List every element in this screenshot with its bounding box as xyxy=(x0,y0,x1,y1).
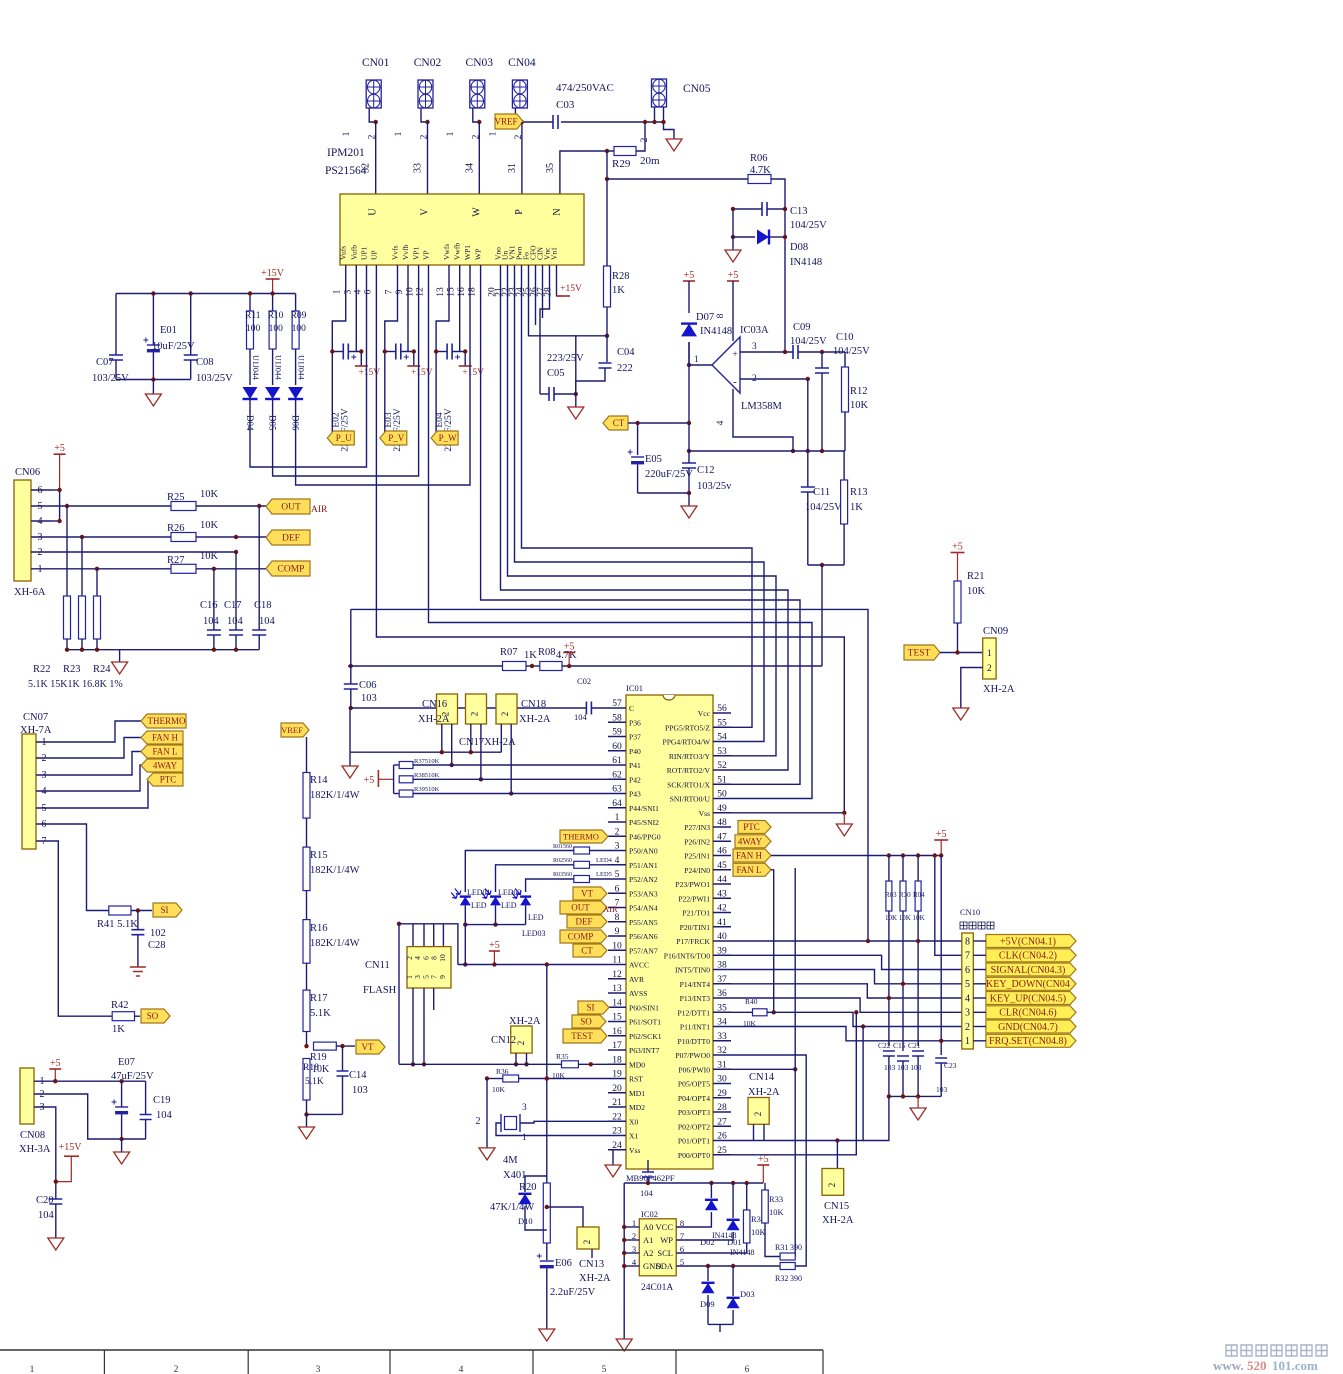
capacitor C13 104/25V xyxy=(733,202,827,231)
wire CN18 pin2 to R39 line xyxy=(509,724,513,796)
capacitor C22 103 xyxy=(878,1041,895,1096)
wire CN11 feed verticals xyxy=(397,922,444,1065)
svg-text:R19: R19 xyxy=(310,1052,327,1063)
wire C11 R13 bottom rail xyxy=(808,563,844,666)
svg-text:10uF/25V: 10uF/25V xyxy=(152,341,195,352)
svg-text:5: 5 xyxy=(602,1365,607,1374)
svg-text:P04/OPT4: P04/OPT4 xyxy=(678,1094,710,1103)
svg-text:48: 48 xyxy=(717,818,727,828)
svg-text:C11: C11 xyxy=(813,487,830,498)
svg-text:R33: R33 xyxy=(769,1194,783,1204)
wire right cap ground rail xyxy=(887,1094,942,1108)
svg-text:WP: WP xyxy=(660,1235,673,1245)
svg-text:TEST: TEST xyxy=(571,1031,593,1041)
diode D06 xyxy=(288,349,303,431)
svg-text:COMP: COMP xyxy=(568,932,594,942)
svg-text:3: 3 xyxy=(343,289,353,294)
wire CN07 pin5 to PTC xyxy=(36,780,152,808)
svg-text:9: 9 xyxy=(615,927,620,937)
svg-text:27: 27 xyxy=(717,1117,727,1127)
svg-text:103: 103 xyxy=(361,693,377,704)
resistor R07 1K xyxy=(500,647,540,671)
wire bus IPM pin12 to MCU pin50 xyxy=(429,265,813,799)
svg-text:R39510K: R39510K xyxy=(414,786,440,793)
capacitor C11 104/25V xyxy=(801,379,842,565)
net flag COMP at IC01 pin9 xyxy=(560,930,607,943)
svg-text:P22/PWI1: P22/PWI1 xyxy=(678,894,710,903)
svg-text:32: 32 xyxy=(717,1046,727,1056)
svg-text:P00/OPT0: P00/OPT0 xyxy=(678,1151,710,1160)
svg-text:R40: R40 xyxy=(745,997,758,1006)
svg-text:C23: C23 xyxy=(944,1061,957,1070)
svg-text:IN4148: IN4148 xyxy=(790,257,822,268)
resistor R35 10K xyxy=(399,1052,608,1080)
svg-text:30: 30 xyxy=(717,1075,727,1085)
svg-text:37: 37 xyxy=(717,975,727,985)
svg-text:C: C xyxy=(629,704,634,713)
svg-text:CN06: CN06 xyxy=(15,467,40,478)
connector CN10 display header xyxy=(960,907,994,1049)
svg-text:R24: R24 xyxy=(93,664,111,675)
svg-text:20: 20 xyxy=(612,1084,622,1094)
wire CN04 to IPM pin 31 xyxy=(521,122,523,194)
svg-text:R15: R15 xyxy=(310,850,328,861)
svg-text:CN10: CN10 xyxy=(960,907,980,917)
svg-text:MB90F462PF: MB90F462PF xyxy=(626,1173,675,1183)
svg-text:38: 38 xyxy=(717,961,727,971)
ground below C12 xyxy=(681,506,697,518)
svg-text:+5: +5 xyxy=(936,829,947,840)
svg-text:Vcc: Vcc xyxy=(698,709,711,718)
wire CN11 lower stubs xyxy=(411,988,434,1067)
wire IPM phase U pins xyxy=(330,265,363,432)
connector CN14 XH-2A xyxy=(748,1072,780,1141)
net flag VREF divider xyxy=(281,723,309,737)
svg-text:FRQ.SET(CN04.8): FRQ.SET(CN04.8) xyxy=(989,1036,1067,1047)
wire bus IPM pin21 to MCU pin53 xyxy=(508,265,777,756)
capacitor E03 220uF/25V xyxy=(384,344,409,452)
svg-text:2: 2 xyxy=(827,1183,837,1188)
wire IC01 pin26 to CN14 and CN15 xyxy=(731,1027,863,1143)
wire IC01 pin32 to R32 column xyxy=(731,1055,806,1266)
svg-text:103: 103 xyxy=(352,1085,368,1096)
capacitor C23 103 xyxy=(935,1058,957,1096)
svg-text:P11/INT1: P11/INT1 xyxy=(680,1023,710,1032)
svg-text:SDA: SDA xyxy=(656,1261,674,1271)
connector CN13 XH-2A xyxy=(545,1205,611,1284)
capacitor C15 103 xyxy=(893,1041,909,1096)
svg-text:10K: 10K xyxy=(850,400,869,411)
svg-text:UP1: UP1 xyxy=(360,246,369,260)
svg-text:222: 222 xyxy=(617,363,633,374)
svg-text:R32: R32 xyxy=(775,1274,788,1283)
svg-text:Vss: Vss xyxy=(629,1146,640,1155)
svg-text:Vvfb: Vvfb xyxy=(401,244,410,260)
svg-text:CN03: CN03 xyxy=(466,57,494,69)
svg-text:3: 3 xyxy=(316,1365,321,1374)
wire LED anode rail xyxy=(463,925,526,967)
svg-text:2: 2 xyxy=(753,1112,763,1117)
resistor R15 182K/1/4W xyxy=(303,818,360,891)
svg-text:VREF: VREF xyxy=(494,117,517,127)
svg-text:VREF: VREF xyxy=(281,725,303,735)
svg-text:35: 35 xyxy=(717,1003,727,1013)
power +5 at R21 xyxy=(951,542,965,582)
resistor R32 390 xyxy=(775,1263,802,1284)
svg-text:R03: R03 xyxy=(885,891,897,899)
svg-text:E01: E01 xyxy=(160,325,177,336)
svg-text:P13/INT3: P13/INT3 xyxy=(680,994,711,1003)
svg-text:XH-7A: XH-7A xyxy=(20,725,52,736)
svg-text:1: 1 xyxy=(446,131,456,136)
wire op-amp pin 2 xyxy=(740,377,810,381)
svg-text:FAN H: FAN H xyxy=(152,733,179,743)
wire D04 to IPM pin 4 xyxy=(250,265,367,467)
svg-text:R35: R35 xyxy=(556,1052,569,1061)
svg-text:34: 34 xyxy=(464,163,475,173)
wire R18 C14 ground rail xyxy=(304,1112,342,1127)
svg-text:19: 19 xyxy=(612,1070,622,1080)
wire crystal ground branch xyxy=(476,1079,488,1148)
net flag 4WAY at CN07 xyxy=(141,759,183,772)
svg-text:1: 1 xyxy=(965,1036,970,1047)
resistor R22 5.1K xyxy=(64,506,71,650)
svg-text:LM358M: LM358M xyxy=(741,401,783,412)
diode D05 xyxy=(265,349,280,431)
net flag P_V xyxy=(380,431,407,445)
svg-text:CLK(CN04.2): CLK(CN04.2) xyxy=(999,951,1057,962)
net flag VT at IC01 pin6 xyxy=(573,887,607,900)
wire Vss pin24 to ground xyxy=(608,1150,613,1165)
svg-text:13: 13 xyxy=(612,984,622,994)
svg-text:X1: X1 xyxy=(629,1132,638,1141)
LED LED02 xyxy=(481,888,521,927)
svg-text:3: 3 xyxy=(615,842,620,852)
svg-text:104/25V: 104/25V xyxy=(833,346,870,357)
capacitor C08 103/25V xyxy=(184,294,233,385)
svg-text:P42: P42 xyxy=(629,775,641,784)
net flag SIGNAL(CN04.3) xyxy=(973,963,1076,976)
wire E05 ground rail xyxy=(638,491,692,506)
svg-text:6: 6 xyxy=(363,289,373,294)
svg-text:VP: VP xyxy=(422,250,431,260)
power +5 at R08 xyxy=(563,642,575,667)
svg-text:56: 56 xyxy=(717,704,727,714)
svg-text:LED5: LED5 xyxy=(596,871,612,878)
svg-text:182K/1/4W: 182K/1/4W xyxy=(310,938,360,949)
capacitor C21 103 xyxy=(884,1041,924,1096)
svg-text:P55/AN5: P55/AN5 xyxy=(629,918,658,927)
svg-text:C10: C10 xyxy=(836,332,854,343)
wire CN06 pin2 to C17 xyxy=(60,550,238,554)
svg-text:XH-2A: XH-2A xyxy=(418,714,450,725)
svg-text:R03560: R03560 xyxy=(553,872,572,878)
svg-text:P01/OPT1: P01/OPT1 xyxy=(678,1137,710,1146)
svg-text:D09: D09 xyxy=(700,1299,715,1309)
svg-text:10K 10K 10K: 10K 10K 10K xyxy=(885,914,925,922)
svg-text:IC02: IC02 xyxy=(641,1209,658,1219)
svg-text:104: 104 xyxy=(259,616,276,627)
svg-text:46: 46 xyxy=(717,847,727,857)
svg-text:E07: E07 xyxy=(118,1057,135,1068)
svg-text:UP: UP xyxy=(369,250,378,260)
svg-text:XH-2A: XH-2A xyxy=(983,684,1015,695)
wire IC01 pin31 to R31 column xyxy=(731,868,797,1257)
svg-text:6: 6 xyxy=(745,1365,750,1374)
net flag SI at IC01 pin14 xyxy=(578,1001,609,1014)
ground below right caps xyxy=(910,1108,926,1120)
capacitor C20 104 xyxy=(36,1195,62,1238)
svg-text:1: 1 xyxy=(30,1365,35,1374)
svg-text:WP: WP xyxy=(474,249,483,260)
svg-text:3: 3 xyxy=(522,1103,527,1113)
wire op-amp pin 3 xyxy=(740,350,793,354)
svg-text:104: 104 xyxy=(156,1110,173,1121)
svg-text:P57/AN7: P57/AN7 xyxy=(629,946,658,955)
svg-text:LED: LED xyxy=(471,901,487,910)
wire VREF-C03-CN05 net xyxy=(374,120,666,124)
svg-text:P_U: P_U xyxy=(336,433,353,443)
svg-text:IN4148: IN4148 xyxy=(700,326,732,337)
svg-text:XH-3A: XH-3A xyxy=(19,1144,51,1155)
svg-text:5: 5 xyxy=(615,870,620,880)
svg-text:58: 58 xyxy=(612,713,622,723)
svg-text:101.com: 101.com xyxy=(1272,1358,1318,1373)
svg-text:C08: C08 xyxy=(196,357,214,368)
svg-text:SO: SO xyxy=(580,1017,592,1027)
connector CN17 XH-2A xyxy=(466,694,487,752)
svg-text:C09: C09 xyxy=(793,322,811,333)
svg-text:8: 8 xyxy=(615,913,620,923)
svg-text:R10: R10 xyxy=(268,311,284,321)
svg-text:29: 29 xyxy=(717,1089,727,1099)
svg-text:CN14: CN14 xyxy=(749,1072,775,1083)
svg-text:18: 18 xyxy=(468,287,478,297)
svg-text:R18: R18 xyxy=(303,1063,319,1073)
ground below C20 xyxy=(48,1238,64,1250)
svg-text:25: 25 xyxy=(717,1146,727,1156)
svg-text:31: 31 xyxy=(507,163,518,173)
svg-text:CN02: CN02 xyxy=(414,57,442,69)
svg-text:CN13: CN13 xyxy=(579,1259,604,1270)
svg-text:Vss: Vss xyxy=(699,809,710,818)
svg-text:C03: C03 xyxy=(556,99,575,111)
resistor R02 560 at pin4 xyxy=(496,857,613,892)
svg-text:P40: P40 xyxy=(629,747,641,756)
svg-text:C16: C16 xyxy=(200,600,218,611)
IPM bottom pin numbers xyxy=(333,287,554,297)
svg-text:U1J044: U1J044 xyxy=(274,355,283,380)
svg-text:10K: 10K xyxy=(492,1085,506,1094)
wire IC01 pin39 to CN10 pin6 xyxy=(731,955,962,969)
svg-text:E06: E06 xyxy=(555,1258,572,1269)
net flag SO at CN07 xyxy=(141,1009,170,1023)
svg-text:28: 28 xyxy=(717,1103,727,1113)
svg-text:DEF: DEF xyxy=(575,917,592,927)
capacitor C18 104 xyxy=(252,506,275,650)
capacitor E06 2.2uF/25V xyxy=(537,1254,596,1330)
capacitor C24 104 at IC02 xyxy=(640,1160,654,1198)
svg-text:10K: 10K xyxy=(200,489,219,500)
svg-text:P61/SOT1: P61/SOT1 xyxy=(629,1018,661,1027)
capacitor E05 220uF/25V xyxy=(628,423,694,493)
capacitor C07 103/25V xyxy=(92,294,129,385)
svg-text:44: 44 xyxy=(717,875,727,885)
net flag VT divider xyxy=(356,1040,385,1054)
svg-text:THERMO: THERMO xyxy=(563,831,599,841)
svg-text:P24/IN0: P24/IN0 xyxy=(684,866,710,875)
connector CN07 XH-7A xyxy=(20,712,52,849)
svg-text:R06: R06 xyxy=(750,153,768,164)
svg-text:+5: +5 xyxy=(489,940,500,951)
net flag SO at IC01 pin15 xyxy=(572,1015,606,1028)
svg-text:+5: +5 xyxy=(564,642,575,653)
svg-text:39: 39 xyxy=(717,946,727,956)
svg-text:R41 5.1K: R41 5.1K xyxy=(97,919,138,930)
svg-text:390: 390 xyxy=(790,1243,802,1252)
connector CN16 XH-2A xyxy=(437,694,458,752)
connector CN02 xyxy=(394,57,441,139)
net flag GND(CN04.7) xyxy=(973,1020,1076,1033)
svg-text:+5V(CN04.1): +5V(CN04.1) xyxy=(1000,936,1056,947)
ground below crystal branch xyxy=(479,1148,495,1160)
microcontroller IC01 MB90F462 xyxy=(626,683,713,1183)
svg-text:10: 10 xyxy=(438,954,447,962)
svg-text:C12: C12 xyxy=(697,465,715,476)
svg-text:VT: VT xyxy=(362,1042,374,1052)
capacitor C06 103 xyxy=(344,666,377,710)
svg-text:U1J044: U1J044 xyxy=(297,355,306,380)
wire R37-39 left rail xyxy=(394,765,400,794)
resistor R11 100 xyxy=(245,294,261,380)
earth ground below C28 xyxy=(130,967,146,976)
net flag +5V(CN04.1) xyxy=(973,935,1076,948)
wire CN08 pin2 ground rail xyxy=(34,1094,146,1152)
svg-text:62: 62 xyxy=(612,770,622,780)
svg-text:32: 32 xyxy=(361,163,372,173)
capacitor C10 104/25V xyxy=(815,332,870,451)
wire IC01 pin40 to CN10 pin8 xyxy=(731,939,962,943)
svg-text:Vvfs: Vvfs xyxy=(391,245,400,260)
svg-text:FAN H: FAN H xyxy=(736,851,763,861)
svg-text:100: 100 xyxy=(292,324,307,334)
svg-text:VP1: VP1 xyxy=(412,246,421,260)
svg-text:4WAY: 4WAY xyxy=(738,836,763,846)
svg-text:AVCC: AVCC xyxy=(629,961,649,970)
svg-text:P54/AN4: P54/AN4 xyxy=(629,904,658,913)
ground below E07 xyxy=(114,1152,130,1164)
svg-text:47: 47 xyxy=(717,832,727,842)
svg-text:R23: R23 xyxy=(63,664,81,675)
power +15V V phase xyxy=(407,366,432,378)
svg-text:P03/OPT3: P03/OPT3 xyxy=(678,1108,710,1117)
svg-text:THERMO: THERMO xyxy=(148,716,187,726)
wire +15V rail xyxy=(116,291,296,295)
svg-text:R20: R20 xyxy=(519,1182,537,1193)
svg-text:12: 12 xyxy=(416,287,426,297)
svg-text:CN04: CN04 xyxy=(508,57,536,69)
resistor R18 5.1K xyxy=(303,1059,324,1115)
svg-text:7: 7 xyxy=(965,951,970,962)
diode D02 IN4148 xyxy=(676,1183,736,1247)
svg-text:D07: D07 xyxy=(696,312,714,323)
svg-text:10K: 10K xyxy=(967,586,986,597)
resistor R42 1K xyxy=(111,1000,140,1035)
svg-text:P16/INT6/TO0: P16/INT6/TO0 xyxy=(664,951,710,960)
svg-text:R12: R12 xyxy=(850,386,868,397)
connector CN03 xyxy=(446,57,493,139)
wire C23 column xyxy=(939,856,943,1056)
wire D05 to IPM pin 10 xyxy=(273,265,419,476)
svg-text:223/25V: 223/25V xyxy=(547,353,584,364)
svg-text:2: 2 xyxy=(965,1022,970,1033)
svg-text:P44/SNI1: P44/SNI1 xyxy=(629,804,659,813)
svg-text:15: 15 xyxy=(447,287,457,297)
svg-text:XH-2A: XH-2A xyxy=(509,1016,541,1027)
svg-text:31: 31 xyxy=(717,1060,727,1070)
svg-text:SCK/RTO1/X: SCK/RTO1/X xyxy=(667,780,710,789)
resistor R10 100 xyxy=(268,294,284,380)
svg-text:CN15: CN15 xyxy=(824,1201,849,1212)
resistor R12 10K xyxy=(842,352,869,451)
wire CN16-18 ground rail xyxy=(350,708,501,766)
svg-text:R14: R14 xyxy=(310,775,328,786)
svg-text:55: 55 xyxy=(717,718,727,728)
svg-text:CT: CT xyxy=(581,946,593,956)
wire bus C06 node east xyxy=(351,609,868,941)
svg-text:Vwfs: Vwfs xyxy=(442,244,451,260)
svg-text:1: 1 xyxy=(488,131,498,136)
svg-text:104/25V: 104/25V xyxy=(790,336,827,347)
svg-text:10K: 10K xyxy=(751,1227,767,1237)
svg-text:+: + xyxy=(732,350,737,360)
svg-text:49: 49 xyxy=(717,804,727,814)
svg-text:+5: +5 xyxy=(728,270,739,281)
wire op-amp output rail xyxy=(687,449,845,453)
resistor R21 10K xyxy=(954,571,986,653)
resistor R37 510K xyxy=(399,758,608,769)
svg-text:+15V: +15V xyxy=(59,1142,83,1153)
svg-text:2: 2 xyxy=(516,1041,526,1046)
svg-text:C14: C14 xyxy=(349,1070,367,1081)
svg-text:+15V: +15V xyxy=(560,284,582,294)
connector CN15 XH-2A xyxy=(822,1141,854,1227)
svg-text:FAN L: FAN L xyxy=(152,747,177,757)
svg-text:4.7K: 4.7K xyxy=(750,165,771,176)
resistor R34 10K xyxy=(676,1183,766,1253)
wire op-amp pin 1 xyxy=(687,342,712,423)
net flag DEF xyxy=(266,530,310,545)
svg-text:P10/DTT0: P10/DTT0 xyxy=(678,1037,711,1046)
svg-text:20m: 20m xyxy=(640,155,660,167)
svg-text:6: 6 xyxy=(615,884,620,894)
svg-text:+5: +5 xyxy=(50,1058,61,1069)
svg-text:XH-2A: XH-2A xyxy=(748,1087,780,1098)
LED LED03 xyxy=(512,889,546,939)
svg-text:GND(CN04.7): GND(CN04.7) xyxy=(998,1022,1058,1033)
svg-text:P53/AN3: P53/AN3 xyxy=(629,889,658,898)
svg-text:P63/INT7: P63/INT7 xyxy=(629,1046,660,1055)
svg-text:CN16: CN16 xyxy=(422,699,447,710)
wire CN01 to IPM pin 32 xyxy=(375,122,377,194)
svg-text:390: 390 xyxy=(790,1274,802,1283)
resistor R19 10K xyxy=(304,1032,355,1076)
svg-text:2: 2 xyxy=(476,1116,481,1127)
wire +5 column to CN10 pin7 xyxy=(933,853,962,955)
svg-text:RST: RST xyxy=(629,1075,643,1084)
resistor R14 182K/1/4W xyxy=(303,737,360,818)
svg-text:R31: R31 xyxy=(775,1243,788,1252)
